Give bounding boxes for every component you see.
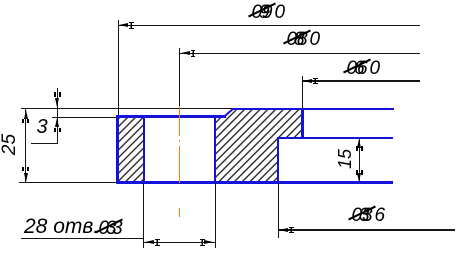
25-dim bottom arrow (points down) [24, 173, 28, 182]
text shelf for hole note [21, 238, 144, 239]
arrow D2 [181, 51, 190, 55]
label dia80 [284, 26, 324, 46]
3-dim lower arrow (points up) [55, 118, 59, 127]
bottom extension line b1 (hole left) [143, 183, 144, 248]
15-dim top arrow (points up) [357, 139, 361, 148]
section end edge [301, 108, 303, 140]
dimension line D5 (d36) [278, 229, 455, 230]
25-dimension vertical line [25, 109, 26, 183]
label dia36 [349, 202, 389, 222]
label 28 otv. [24, 216, 99, 237]
part outline: flange top face [116, 115, 226, 117]
dimension line D2 (d80) [180, 53, 420, 54]
D5 arrow [279, 228, 288, 232]
3-dim upper arrow (points down) [55, 98, 59, 107]
inner step vertical edge [277, 137, 279, 184]
hatch right hub section [215, 109, 302, 182]
label 25 (rotated) [0, 133, 19, 154]
chamfer [224, 108, 234, 117]
3-dimension vertical line [57, 88, 58, 143]
step horizontal line [277, 137, 393, 139]
arrow D3 [303, 79, 312, 83]
3-dim leader shelf [31, 143, 58, 144]
bottom extension line b2 (hole right) [215, 183, 216, 248]
dimension line D3 (d60) [303, 80, 421, 81]
extension line ext2 (d80, above centerline) [179, 48, 180, 106]
flange top reference line (3-dim lower) [52, 117, 117, 118]
bottom face extension line (25-dim) [19, 182, 116, 183]
left edge [116, 115, 118, 184]
label dia60 [344, 55, 384, 75]
label dia3 cluster [96, 215, 130, 235]
orange centerline segments [179, 106, 181, 136]
step reference line (3-dim upper, hub top extended left) [21, 108, 233, 109]
dimension line D1 (d90) [119, 25, 420, 26]
15-dim bottom arrow (points down) [357, 173, 361, 182]
hub top face [233, 108, 394, 110]
dimension line D4 (hole dia) [144, 242, 215, 243]
hatch left flange wall [118, 117, 143, 183]
extension line ext1 (d90) [118, 20, 119, 116]
extension line b3 (d36) [278, 183, 279, 238]
D4 right arrow [204, 240, 213, 244]
D4 left arrow [145, 240, 154, 244]
15-dimension vertical line [359, 138, 360, 182]
hole left edge [143, 115, 145, 184]
label 3 [37, 117, 48, 137]
hole right edge [214, 115, 216, 184]
bottom face [116, 181, 393, 183]
extension line ext3 (d60) [302, 76, 303, 108]
label dia90 [249, 0, 289, 19]
arrow D1 [119, 23, 128, 27]
25-dim top arrow (points up) [24, 110, 28, 119]
label 15 (rotated) [336, 148, 354, 168]
